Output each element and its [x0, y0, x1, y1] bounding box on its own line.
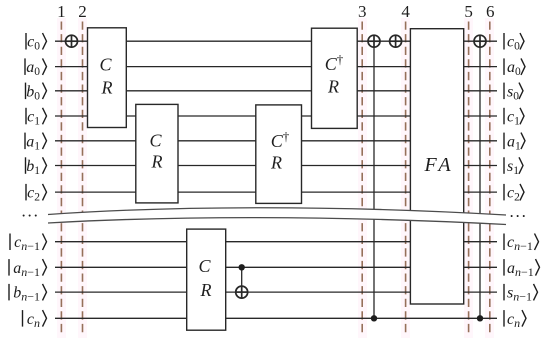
svg-text:1: 1 [57, 2, 66, 21]
ket label right a(n-1) [504, 259, 540, 279]
dashed barrier line 1 [60, 22, 62, 336]
svg-text:...: ... [510, 202, 528, 221]
wire cn [55, 317, 497, 319]
CNOT target on c0 (step 1-2) [66, 35, 78, 47]
control dot on cn (x=374) [371, 315, 377, 321]
dashed barrier line 6 [489, 22, 491, 336]
ket label right a1 [504, 133, 525, 153]
CNOT target on c0 (step 5-6) [474, 35, 486, 47]
wire a(n-1) [55, 266, 497, 268]
ket label left b0 [26, 83, 47, 103]
gate box CR (qubit group n-1) [187, 229, 226, 330]
svg-text:5: 5 [464, 2, 473, 21]
break band (wavy separator) [48, 208, 506, 225]
control dot on cn (x=480) [477, 315, 483, 321]
control line bottom CNOT a(n-1) to b(n-1) [241, 267, 243, 292]
dashed barrier line 2 [82, 22, 84, 336]
wire c(n-1) [55, 241, 497, 243]
ket label right s1 [504, 157, 523, 177]
dashed barrier line 4 [405, 22, 407, 336]
svg-text:R: R [270, 153, 282, 173]
ket label right s0 [504, 83, 523, 103]
ket label right c1 [504, 108, 524, 128]
ket label left b(n-1) [9, 284, 47, 304]
ket label left c1 [26, 108, 47, 128]
ket label right c2 [504, 184, 524, 204]
gate box CR-dagger (qubit group 1) [256, 105, 302, 203]
svg-text:4: 4 [401, 2, 410, 21]
wire b1/s1 [55, 165, 497, 167]
gate box FA full adder [410, 29, 463, 304]
ket label left a(n-1) [9, 259, 47, 279]
ket label left c0 [26, 33, 47, 53]
wire b0/s0 [55, 90, 497, 92]
ket label left c(n-1) [10, 234, 47, 254]
ket label left b1 [26, 157, 47, 177]
wire c1 [55, 115, 497, 117]
svg-text:R: R [327, 77, 339, 97]
wire c2 [55, 191, 497, 193]
svg-text:R: R [101, 78, 113, 98]
ket label right c(n-1) [504, 234, 539, 254]
wire b(n-1)/s(n-1) [55, 291, 497, 293]
svg-text:C: C [198, 256, 211, 276]
gate box CR (qubit group 0) [88, 28, 127, 128]
svg-text:F A: F A [423, 154, 451, 176]
gate box CR-dagger (qubit group 0) [312, 28, 358, 128]
ket label left c2 [26, 184, 47, 204]
dashed barrier line 5 [468, 22, 470, 336]
svg-text:2: 2 [78, 2, 87, 21]
ket label left a1 [25, 133, 47, 153]
wire a0 [55, 66, 497, 68]
control line CNOT cn to c0 (line 5-6) [479, 41, 481, 318]
ket label right a0 [504, 58, 525, 78]
ket label left a0 [25, 58, 47, 78]
artifact pink strips near dashed lines [57, 18, 494, 338]
ket label right cn [504, 310, 526, 330]
svg-text:R: R [200, 280, 212, 300]
wire c0 [55, 40, 497, 42]
ket label right s(n-1) [504, 284, 538, 304]
CNOT target on b(n-1) [236, 286, 248, 298]
svg-text:R: R [151, 152, 163, 172]
control line CNOT cn to c0 (line 3-4) [373, 41, 375, 318]
ket label left cn [23, 310, 47, 330]
svg-text:3: 3 [358, 2, 367, 21]
svg-text:6: 6 [486, 2, 495, 21]
svg-text:...: ... [22, 202, 40, 221]
CNOT target on c0 (first, step 3-4) [368, 35, 380, 47]
wire a1 [55, 140, 497, 142]
control dot on a(n-1) [239, 264, 245, 270]
gate box CR (qubit group 1) [136, 104, 178, 202]
ket label right c0 [504, 33, 524, 53]
CNOT target on c0 (second, step 3-4) [390, 35, 402, 47]
svg-text:C: C [99, 55, 112, 75]
svg-text:C: C [149, 131, 162, 151]
dashed barrier line 3 [361, 22, 363, 336]
